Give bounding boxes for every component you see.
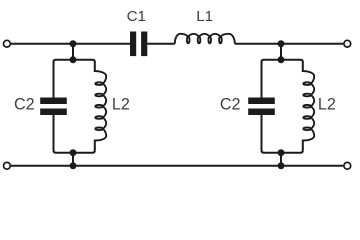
wire stub top rail to right shunt xyxy=(280,44,282,60)
inductor L2 left xyxy=(95,71,106,141)
wire left shunt loop bottom and branches lower xyxy=(54,115,95,153)
wire top rail left segment xyxy=(11,43,130,45)
capacitor C2 right xyxy=(248,98,275,105)
wire bottom rail xyxy=(11,165,343,167)
terminal input top-left xyxy=(4,40,11,47)
capacitor C2 left xyxy=(40,98,67,105)
wire stub right shunt to bottom rail xyxy=(280,153,282,166)
wire L1 to right terminal xyxy=(235,43,343,45)
junction node top rail right xyxy=(278,40,285,47)
inductor L2 right xyxy=(303,71,314,141)
junction node right loop top xyxy=(278,56,285,63)
inductor L1 xyxy=(175,34,235,44)
svg-text:C2: C2 xyxy=(220,95,241,113)
wire left shunt loop top and cap branch upper xyxy=(54,60,95,98)
wire C1 to L1 xyxy=(147,43,175,45)
terminal input bottom-left xyxy=(4,162,11,169)
svg-text:L2: L2 xyxy=(112,95,130,113)
wire stub top rail to left shunt xyxy=(72,44,74,60)
terminal output top-right xyxy=(344,40,351,47)
wire stub left shunt to bottom rail xyxy=(72,153,74,166)
junction node bottom rail right xyxy=(278,162,285,169)
capacitor C1 xyxy=(130,32,136,57)
svg-text:C2: C2 xyxy=(14,95,35,113)
junction node top rail left xyxy=(70,40,77,47)
junction node right loop bottom xyxy=(278,149,285,156)
junction node bottom rail left xyxy=(70,162,77,169)
terminal output bottom-right xyxy=(344,162,351,169)
svg-text:L1: L1 xyxy=(196,8,213,25)
svg-text:C1: C1 xyxy=(127,8,146,25)
junction node left loop bottom xyxy=(70,149,77,156)
svg-text:L2: L2 xyxy=(318,95,336,113)
wire right shunt loop top and cap branch upper xyxy=(262,60,303,98)
junction node left loop top xyxy=(70,56,77,63)
wire right shunt loop bottom and branches lower xyxy=(262,115,303,153)
